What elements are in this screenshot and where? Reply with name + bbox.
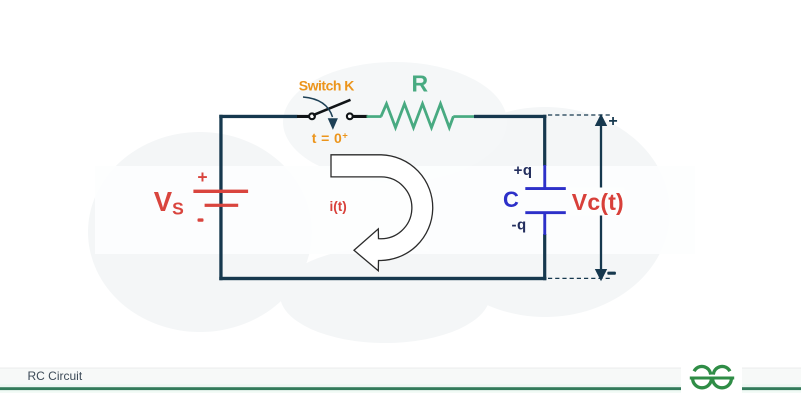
footer line glow upper (0, 384, 801, 387)
switch terminal left (309, 113, 315, 119)
background watermark blobs (88, 62, 695, 343)
footer green line left (0, 387, 681, 390)
capacitor blue stub bottom (543, 214, 546, 235)
wire left vertical (219, 115, 222, 280)
battery VS plate long (193, 190, 248, 193)
battery VS plate short (205, 204, 239, 207)
wire right vertical lower (capacitor to corner) (543, 234, 546, 280)
capacitor C top plate (525, 187, 566, 190)
minus sign at arrow bottom (607, 272, 616, 275)
svg-text:+: + (608, 113, 617, 130)
wire top black stub left of switch (297, 115, 309, 118)
wire green lead left of resistor (367, 115, 382, 118)
wire green lead right of resistor (453, 115, 475, 118)
svg-text:Vc(t): Vc(t) (572, 189, 624, 215)
footer green line right (742, 387, 801, 390)
svg-text:-q: -q (512, 217, 527, 234)
resistor R zigzag (381, 104, 453, 128)
wire top-left horizontal (219, 115, 297, 118)
svg-text:RC Circuit: RC Circuit (28, 369, 83, 383)
dashed line top right (548, 114, 610, 116)
switch closing arc arrow (303, 97, 333, 117)
wire top-right navy after resistor (474, 115, 546, 118)
logo white box (681, 352, 742, 393)
svg-text:Switch K: Switch K (299, 78, 355, 94)
dashed line bottom right (548, 277, 610, 279)
footer divider (0, 368, 801, 369)
svg-text:i(t): i(t) (330, 199, 347, 214)
Vc measurement arrow (double headed vertical) (600, 124, 602, 271)
battery - sign (198, 218, 204, 221)
wire bottom horizontal (219, 277, 546, 280)
capacitor C bottom plate (525, 211, 566, 214)
svg-text:R: R (412, 70, 429, 96)
wire black stub right of switch (353, 115, 367, 118)
switch terminal right (347, 113, 353, 119)
capacitor blue stub top (543, 165, 546, 188)
footer line glow lower (0, 390, 801, 393)
label Vc(t) background mask (570, 188, 625, 216)
svg-text:+: + (197, 167, 207, 187)
current direction arrow (big white U-turn arrow) (331, 155, 433, 271)
svg-text:+q: +q (514, 162, 533, 179)
wire right vertical upper (corner to capacitor) (543, 115, 546, 166)
switch blade (313, 100, 351, 115)
svg-text:C: C (503, 187, 519, 212)
GeeksforGeeks logo (690, 366, 734, 387)
